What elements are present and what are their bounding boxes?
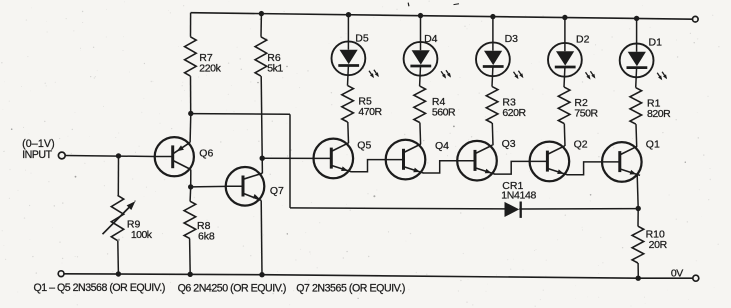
node R8 bottom junction — [188, 272, 193, 277]
wire input to Q6 base — [65, 156, 155, 157]
svg-text:Q6: Q6 — [199, 147, 213, 159]
wire CR1 anode run — [290, 208, 505, 209]
svg-text:6k8: 6k8 — [198, 230, 215, 242]
wire Q1 emitter to R10 node — [637, 175, 638, 209]
wire Q3 emitter to Q2 base — [495, 161, 530, 174]
node D1 anode junction — [634, 16, 639, 21]
wire D4 cathode lead — [419, 66, 422, 86]
resistor R3 — [486, 87, 498, 123]
svg-text:INPUT: INPUT — [22, 149, 53, 161]
label R8 value 6k8 — [197, 220, 215, 243]
wire R9 bottom lead — [117, 241, 120, 274]
wire top +V supply rail — [191, 13, 693, 20]
LED D5 — [332, 15, 379, 78]
LED D3 — [476, 17, 523, 80]
svg-text:750R: 750R — [574, 107, 598, 119]
terminal +V (top right) — [693, 16, 699, 22]
wire R7 bottom lead — [190, 76, 192, 113]
svg-text:5k1: 5k1 — [267, 63, 283, 75]
svg-text:Q5: Q5 — [357, 140, 371, 152]
label R6 value 5k1 — [267, 52, 283, 75]
wire R2 to Q2 collector — [563, 124, 566, 147]
transistor Q1 — [602, 142, 642, 182]
label input (0-1V) — [22, 138, 55, 150]
svg-text:620R: 620R — [502, 107, 526, 119]
wire R6 top lead — [260, 14, 262, 37]
label R10 value 20R — [646, 228, 668, 251]
wire Q6 emitter up lead — [189, 114, 192, 143]
wire R4 to Q4 collector — [419, 123, 422, 145]
svg-text:20R: 20R — [649, 239, 668, 251]
label R1 value 820R — [647, 97, 671, 120]
wire R3 to Q3 collector — [491, 123, 494, 145]
node D2 anode junction — [562, 15, 567, 20]
wire Q6 collector down lead — [190, 170, 192, 187]
wire R8 top lead — [189, 187, 192, 201]
label CR1 value 1N4148 — [501, 180, 536, 202]
wire Q6 collector to Q7 base — [191, 185, 226, 188]
svg-text:220k: 220k — [199, 63, 221, 75]
label R2 value 750R — [574, 97, 598, 120]
resistor R6 — [255, 37, 267, 76]
label Q1 — [646, 138, 660, 150]
resistor R10 — [632, 226, 644, 263]
LED D2 — [548, 18, 595, 80]
wire R7 top lead — [190, 13, 192, 37]
wire R8 bottom lead — [189, 239, 192, 275]
resistor R4 — [414, 86, 426, 122]
svg-text:Q7 2N3565 (OR EQUIV.): Q7 2N3565 (OR EQUIV.) — [296, 283, 405, 295]
label D5 — [355, 33, 369, 45]
transistor Q7 — [226, 167, 265, 206]
label D4 — [424, 33, 438, 45]
node R10 bottom junction — [636, 276, 641, 281]
terminal input — [58, 152, 65, 159]
svg-text:D1: D1 — [649, 36, 663, 48]
wire Q7 collector up lead — [261, 158, 263, 173]
wire R1 to Q1 collector — [635, 124, 638, 146]
diode CR1 — [505, 202, 639, 218]
label R9 value 100k — [127, 218, 153, 241]
resistor R8 — [184, 201, 196, 238]
svg-text:100k: 100k — [131, 229, 153, 241]
wire R10 bottom lead — [637, 263, 639, 278]
label 0V — [671, 267, 683, 279]
svg-text:Q7: Q7 — [270, 185, 284, 197]
wire Q7 collector node to Q5 base — [262, 157, 313, 159]
svg-text:470R: 470R — [358, 106, 382, 118]
node Q7 emitter bottom junction — [259, 272, 264, 277]
label Q4 — [435, 140, 449, 152]
node D3 anode junction — [490, 14, 495, 19]
node Q6 collector / R8 / Q7 base junction — [188, 184, 193, 189]
svg-text:Q4: Q4 — [435, 140, 449, 152]
wire D1 cathode lead — [635, 68, 638, 88]
label Q7 — [270, 185, 284, 197]
node R9 bottom junction — [116, 271, 121, 276]
wire 0V bottom rail — [65, 274, 693, 278]
node input / R9 junction — [116, 153, 121, 158]
transistor Q4 — [386, 140, 426, 180]
node R6 top junction — [259, 11, 264, 16]
transistor Q2 — [530, 142, 570, 182]
resistor R9 (variable) — [103, 195, 136, 240]
svg-text:Q3: Q3 — [502, 138, 516, 150]
wire R6 bottom lead — [261, 76, 262, 158]
svg-text:D5: D5 — [355, 33, 369, 45]
terminal 0V (bottom right) — [693, 275, 699, 281]
wire Q4 emitter to Q3 base — [424, 161, 458, 173]
label Q3 — [502, 138, 516, 150]
label R4 value 560R — [432, 96, 456, 119]
transistor Q6 (PNP) — [155, 137, 194, 176]
node D5 anode junction — [346, 12, 351, 17]
svg-text:Q1: Q1 — [646, 138, 660, 150]
label INPUT — [22, 149, 53, 161]
svg-text:D2: D2 — [576, 33, 590, 45]
svg-text:560R: 560R — [432, 106, 456, 118]
svg-text:0V: 0V — [671, 267, 683, 279]
wire D2 cathode lead — [563, 67, 566, 87]
label R5 value 470R — [358, 95, 382, 118]
label D2 — [576, 33, 590, 45]
transistor Q5 — [314, 139, 354, 179]
svg-text:820R: 820R — [647, 108, 671, 120]
wire node A vertical drop — [289, 114, 291, 208]
node CR1 / Q1 emitter / R10 junction — [636, 206, 641, 211]
label transistor type Q6 — [178, 282, 286, 294]
label D3 — [505, 33, 519, 45]
transistor Q3 — [457, 141, 497, 181]
resistor R5 — [342, 86, 354, 122]
label Q5 — [357, 140, 371, 152]
resistor R7 — [185, 37, 197, 76]
svg-text:D4: D4 — [424, 33, 438, 45]
wire D3 cathode lead — [491, 67, 494, 87]
svg-text:Q2: Q2 — [574, 138, 588, 150]
label D1 — [649, 36, 663, 48]
wire Q5 emitter to Q4 base — [351, 160, 385, 172]
wire R9 top lead — [117, 156, 119, 195]
LED D1 — [620, 19, 667, 81]
node R6 / Q7 collector / Q5 base junction — [260, 156, 265, 161]
label R7 value 220k — [199, 52, 221, 75]
label transistor types Q1-Q5 — [34, 282, 165, 294]
label R3 value 620R — [502, 96, 526, 119]
wire Q2 emitter to Q1 base — [567, 162, 602, 175]
node D4 anode junction — [418, 13, 423, 18]
wire node A horizontal (emitter bias run) — [191, 113, 290, 116]
resistor R2 — [558, 87, 570, 123]
svg-text:1N4148: 1N4148 — [501, 190, 536, 202]
svg-text:Q6 2N4250 (OR EQUIV.): Q6 2N4250 (OR EQUIV.) — [178, 282, 286, 294]
svg-text:D3: D3 — [505, 33, 519, 45]
label Q6 — [199, 147, 213, 159]
label Q2 — [574, 138, 588, 150]
label transistor type Q7 — [296, 283, 405, 295]
wire R5 to Q5 collector — [347, 122, 350, 143]
node R7 / Q6 emitter junction — [188, 111, 193, 116]
wire D5 cathode lead — [347, 66, 350, 86]
wire R10 top lead — [637, 209, 639, 227]
resistor R1 — [630, 88, 642, 124]
terminal input return (bottom left) — [58, 271, 64, 277]
wire Q7 emitter down lead — [260, 200, 263, 274]
LED D4 — [404, 16, 451, 79]
scan mark (speck above rail) — [408, 3, 459, 7]
